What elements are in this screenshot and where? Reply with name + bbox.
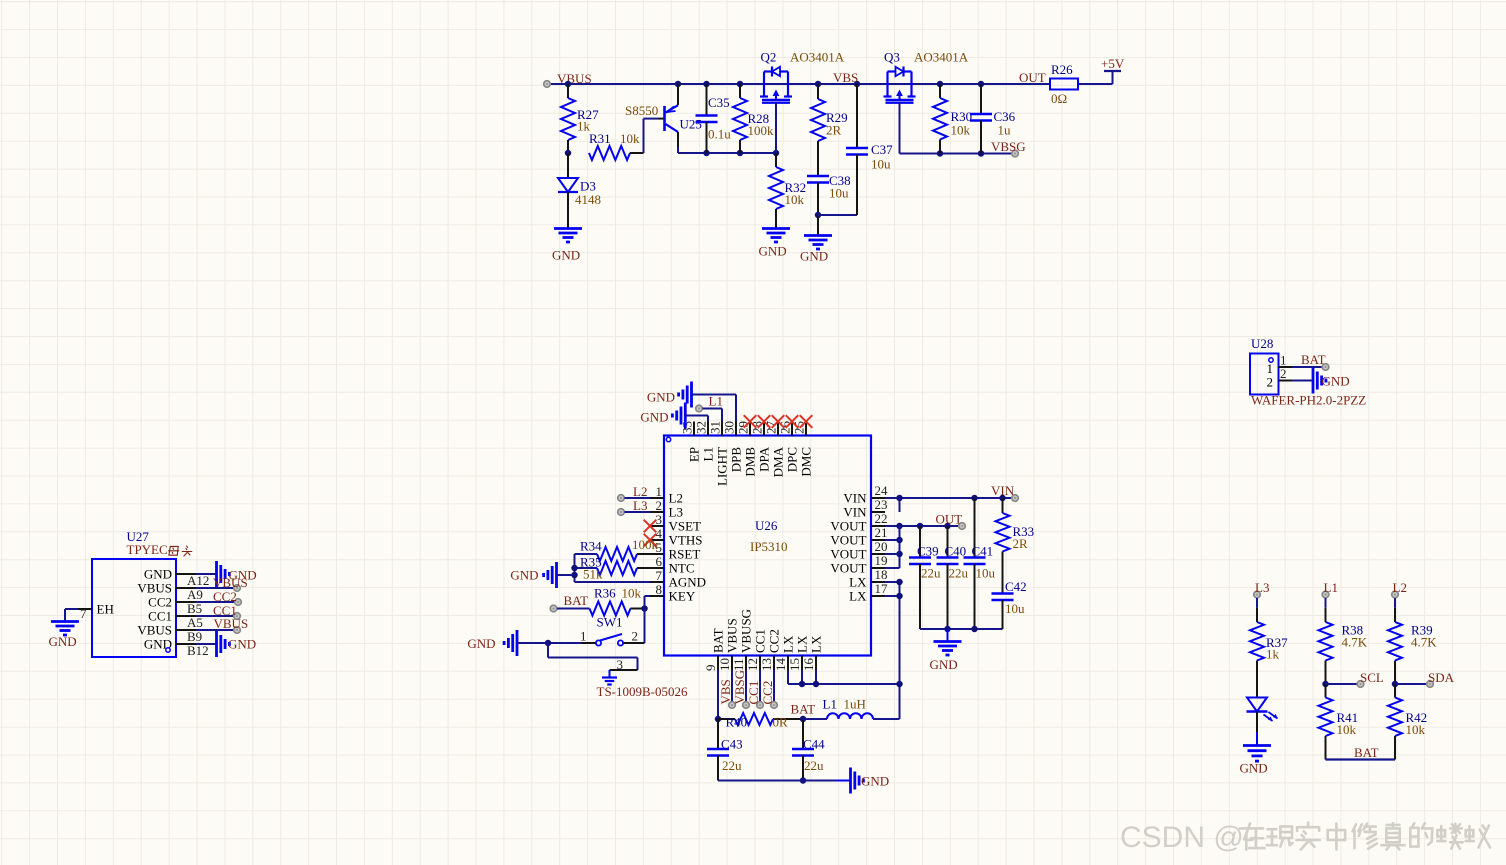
svg-text:4.7K: 4.7K xyxy=(1342,635,1368,650)
svg-text:1k: 1k xyxy=(1266,647,1280,662)
svg-text:VIN: VIN xyxy=(843,505,867,520)
svg-text:2: 2 xyxy=(632,629,639,644)
svg-text:GND: GND xyxy=(49,634,77,649)
svg-text:BAT: BAT xyxy=(1301,352,1326,367)
svg-text:10u: 10u xyxy=(1005,601,1025,616)
svg-text:C39: C39 xyxy=(917,544,939,559)
svg-text:CC2: CC2 xyxy=(148,595,172,610)
svg-text:R26: R26 xyxy=(1051,62,1073,77)
svg-text:OUT: OUT xyxy=(1019,70,1046,85)
svg-text:VBSG: VBSG xyxy=(732,670,747,705)
svg-text:12: 12 xyxy=(745,658,760,671)
svg-text:Q2: Q2 xyxy=(761,50,777,65)
svg-text:4148: 4148 xyxy=(575,192,601,207)
svg-text:3: 3 xyxy=(617,657,624,672)
svg-text:L1: L1 xyxy=(709,394,723,409)
svg-text:CC1: CC1 xyxy=(746,681,761,705)
svg-text:L1: L1 xyxy=(701,447,716,461)
svg-text:22: 22 xyxy=(875,511,888,526)
svg-text:11: 11 xyxy=(731,658,746,671)
svg-text:30: 30 xyxy=(722,421,737,434)
svg-text:15: 15 xyxy=(787,658,802,671)
svg-text:WAFER-PH2.0-2PZZ: WAFER-PH2.0-2PZZ xyxy=(1251,393,1366,408)
svg-text:S8550: S8550 xyxy=(625,103,658,118)
svg-text:23: 23 xyxy=(875,497,888,512)
svg-text:GND: GND xyxy=(800,249,828,264)
svg-text:32: 32 xyxy=(694,421,709,434)
svg-text:19: 19 xyxy=(875,553,888,568)
svg-text:VBS: VBS xyxy=(833,70,858,85)
svg-text:LX: LX xyxy=(781,635,796,653)
svg-text:CC1: CC1 xyxy=(753,629,768,653)
svg-text:SW1: SW1 xyxy=(597,615,623,630)
svg-text:SDA: SDA xyxy=(1428,670,1455,685)
svg-text:LX: LX xyxy=(849,589,867,604)
svg-text:10k: 10k xyxy=(622,586,642,601)
svg-text:GND: GND xyxy=(930,657,958,672)
svg-text:VOUT: VOUT xyxy=(830,519,866,534)
svg-text:7: 7 xyxy=(656,568,663,583)
svg-text:U28: U28 xyxy=(1251,336,1273,351)
svg-text:VOUT: VOUT xyxy=(830,561,866,576)
svg-text:7: 7 xyxy=(80,606,87,621)
svg-text:2: 2 xyxy=(656,498,663,513)
svg-text:C41: C41 xyxy=(972,544,994,559)
svg-text:14: 14 xyxy=(773,658,788,672)
svg-text:B12: B12 xyxy=(187,643,209,658)
svg-text:DPA: DPA xyxy=(757,446,772,471)
svg-text:VBUS: VBUS xyxy=(557,71,592,86)
svg-text:L2: L2 xyxy=(633,484,647,499)
svg-text:A5: A5 xyxy=(187,615,203,630)
svg-text:17: 17 xyxy=(875,581,889,596)
svg-text:10k: 10k xyxy=(1406,722,1426,737)
svg-text:VBUS: VBUS xyxy=(214,616,249,631)
svg-text:DMA: DMA xyxy=(771,446,786,477)
svg-text:GND: GND xyxy=(759,244,787,259)
svg-text:VIN: VIN xyxy=(843,491,867,506)
svg-text:U26: U26 xyxy=(755,518,778,533)
svg-text:L1: L1 xyxy=(1324,580,1338,595)
svg-text:B5: B5 xyxy=(187,601,202,616)
svg-text:BAT: BAT xyxy=(1354,745,1379,760)
svg-text:8: 8 xyxy=(656,582,663,597)
svg-text:VBSG: VBSG xyxy=(991,139,1026,154)
svg-text:L1: L1 xyxy=(823,697,837,712)
svg-text:20: 20 xyxy=(875,539,888,554)
svg-text:100k: 100k xyxy=(632,537,659,552)
svg-text:1: 1 xyxy=(580,629,587,644)
svg-text:10u: 10u xyxy=(829,186,849,201)
svg-text:VSET: VSET xyxy=(669,519,702,534)
svg-text:AO3401A: AO3401A xyxy=(914,50,969,65)
svg-text:BAT: BAT xyxy=(711,628,726,653)
svg-text:LX: LX xyxy=(809,635,824,653)
svg-text:R34: R34 xyxy=(580,539,602,554)
svg-text:21: 21 xyxy=(875,525,888,540)
svg-text:0Ω: 0Ω xyxy=(1051,91,1067,106)
svg-text:10k: 10k xyxy=(1337,722,1357,737)
svg-text:CC2: CC2 xyxy=(760,681,775,705)
svg-text:B9: B9 xyxy=(187,629,202,644)
svg-text:LX: LX xyxy=(849,575,867,590)
svg-text:DPC: DPC xyxy=(785,447,800,472)
svg-text:DPB: DPB xyxy=(729,447,744,473)
svg-text:2: 2 xyxy=(1267,375,1274,390)
svg-text:CC1: CC1 xyxy=(148,609,172,624)
svg-text:22u: 22u xyxy=(949,566,969,581)
svg-text:LX: LX xyxy=(795,635,810,653)
svg-text:GND: GND xyxy=(1322,374,1350,389)
svg-text:GND: GND xyxy=(861,774,889,789)
svg-text:4.7K: 4.7K xyxy=(1411,635,1437,650)
svg-text:10k: 10k xyxy=(620,131,640,146)
svg-text:L3: L3 xyxy=(1255,580,1269,595)
svg-text:GND: GND xyxy=(647,390,675,405)
svg-text:L2: L2 xyxy=(1393,580,1407,595)
svg-text:C42: C42 xyxy=(1005,579,1027,594)
svg-text:10k: 10k xyxy=(785,192,805,207)
svg-text:L3: L3 xyxy=(633,498,647,513)
svg-text:C44: C44 xyxy=(803,737,825,752)
svg-text:BAT: BAT xyxy=(791,702,816,717)
svg-text:SCL: SCL xyxy=(1360,670,1384,685)
svg-text:VBUS: VBUS xyxy=(137,581,172,596)
svg-text:24: 24 xyxy=(875,483,889,498)
svg-text:R36: R36 xyxy=(594,586,616,601)
svg-text:DMC: DMC xyxy=(799,447,814,477)
svg-text:18: 18 xyxy=(875,567,888,582)
svg-text:6: 6 xyxy=(656,554,663,569)
svg-text:AO3401A: AO3401A xyxy=(790,50,845,65)
svg-text:GND: GND xyxy=(640,410,668,425)
svg-text:EH: EH xyxy=(97,602,114,617)
svg-text:NTC: NTC xyxy=(669,561,695,576)
svg-text:C43: C43 xyxy=(721,737,743,752)
svg-text:16: 16 xyxy=(801,658,816,672)
svg-text:U25: U25 xyxy=(680,117,702,132)
svg-text:1u: 1u xyxy=(998,123,1012,138)
svg-text:GND: GND xyxy=(510,568,538,583)
svg-text:R40: R40 xyxy=(726,715,748,730)
svg-text:10u: 10u xyxy=(976,566,996,581)
svg-text:GND: GND xyxy=(1240,761,1268,776)
svg-text:KEY: KEY xyxy=(669,589,696,604)
svg-text:GND: GND xyxy=(552,248,580,263)
svg-text:VBUS: VBUS xyxy=(725,618,740,653)
svg-text:Q3: Q3 xyxy=(884,50,900,65)
svg-text:2R: 2R xyxy=(826,123,842,138)
svg-text:C40: C40 xyxy=(945,544,967,559)
svg-text:L3: L3 xyxy=(669,505,683,520)
svg-text:CC2: CC2 xyxy=(213,589,237,604)
svg-text:VOUT: VOUT xyxy=(830,547,866,562)
svg-text:100k: 100k xyxy=(748,123,775,138)
svg-text:LIGHT: LIGHT xyxy=(715,447,730,486)
svg-text:IP5310: IP5310 xyxy=(750,539,788,554)
svg-text:CC2: CC2 xyxy=(767,629,782,653)
svg-text:VBS: VBS xyxy=(718,679,733,704)
svg-text:0.1u: 0.1u xyxy=(708,127,731,142)
svg-text:22u: 22u xyxy=(804,758,824,773)
svg-text:VBUS: VBUS xyxy=(137,623,172,638)
svg-text:10u: 10u xyxy=(871,157,891,172)
svg-text:DMB: DMB xyxy=(743,447,758,477)
svg-text:VTHS: VTHS xyxy=(669,533,703,548)
svg-text:RSET: RSET xyxy=(669,547,701,562)
svg-text:31: 31 xyxy=(708,421,723,434)
svg-text:AGND: AGND xyxy=(669,575,707,590)
svg-text:GND: GND xyxy=(228,637,256,652)
svg-text:BAT: BAT xyxy=(564,593,589,608)
svg-text:VBUS: VBUS xyxy=(213,575,248,590)
svg-text:L2: L2 xyxy=(669,491,683,506)
svg-text:A12: A12 xyxy=(187,573,209,588)
svg-text:10: 10 xyxy=(717,658,732,671)
svg-text:GND: GND xyxy=(144,637,172,652)
svg-text:1: 1 xyxy=(656,484,663,499)
svg-text:VOUT: VOUT xyxy=(830,533,866,548)
svg-text:VIN: VIN xyxy=(991,483,1015,498)
svg-text:+5V: +5V xyxy=(1101,56,1125,71)
svg-text:GND: GND xyxy=(144,567,172,582)
svg-text:51k: 51k xyxy=(583,567,603,582)
svg-text:C37: C37 xyxy=(871,142,893,157)
svg-text:10k: 10k xyxy=(951,123,971,138)
svg-text:22u: 22u xyxy=(921,566,941,581)
svg-text:22u: 22u xyxy=(722,758,742,773)
svg-text:TS-1009B-05026: TS-1009B-05026 xyxy=(597,684,689,699)
svg-text:9: 9 xyxy=(703,665,718,672)
svg-text:2: 2 xyxy=(1280,366,1287,381)
svg-text:A9: A9 xyxy=(187,587,203,602)
svg-text:13: 13 xyxy=(759,658,774,671)
svg-text:1uH: 1uH xyxy=(844,697,866,712)
svg-text:VBUSG: VBUSG xyxy=(739,609,754,653)
svg-text:TPYEC: TPYEC xyxy=(127,542,168,557)
svg-text:0R: 0R xyxy=(773,715,789,730)
svg-text:3: 3 xyxy=(656,512,663,527)
svg-text:EP: EP xyxy=(687,447,702,462)
svg-text:OUT: OUT xyxy=(936,512,963,527)
svg-text:GND: GND xyxy=(467,636,495,651)
svg-text:R31: R31 xyxy=(589,131,611,146)
svg-text:2R: 2R xyxy=(1013,536,1029,551)
svg-text:CSDN @: CSDN @ xyxy=(1120,821,1244,854)
svg-text:C35: C35 xyxy=(708,95,730,110)
